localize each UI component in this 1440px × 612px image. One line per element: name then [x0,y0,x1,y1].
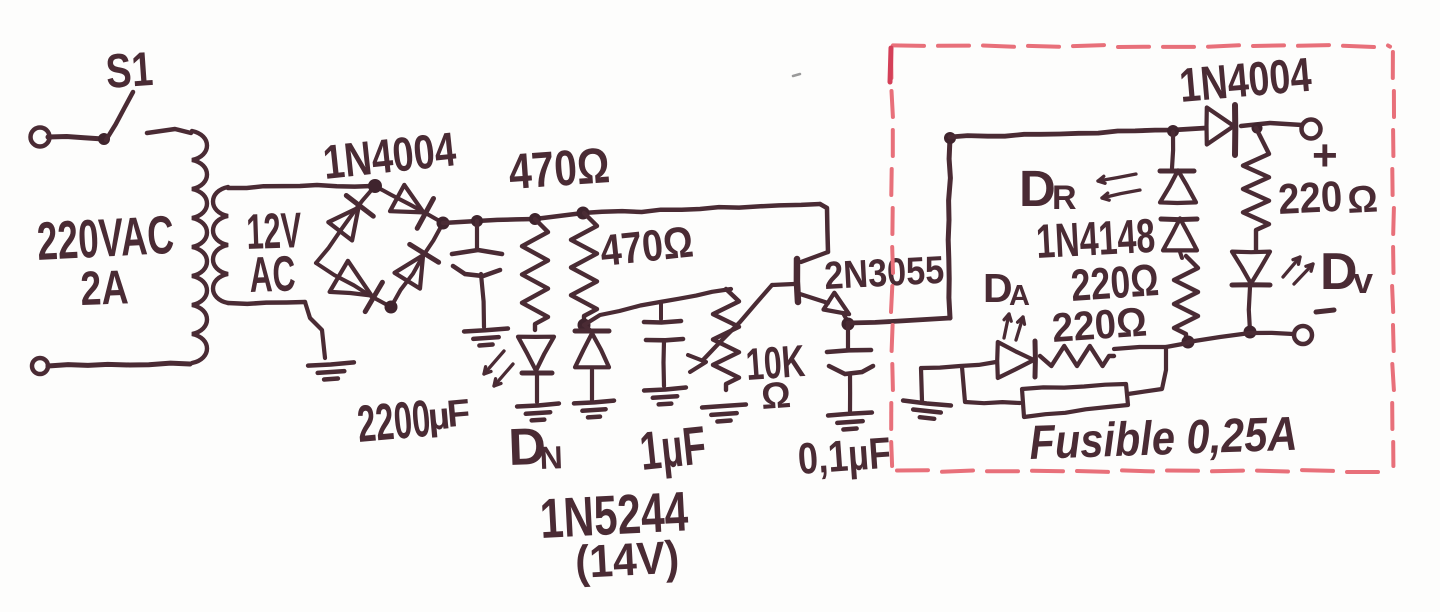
node riser top [944,132,956,144]
ground 10K [702,405,746,408]
wire bridge bottom-right edge [391,223,443,307]
svg-text:1N4004: 1N4004 [1177,49,1313,113]
dashed enclosure bottom [897,468,928,472]
wire DA ground stem [921,368,922,401]
potentiometer P1 10K body [713,289,739,390]
wire bridge bottom-left edge [316,263,391,307]
capacitor C3 plate2 [829,366,873,374]
wire bridge top-left edge [316,186,375,263]
wire J1 left [1114,343,1188,349]
node after diode [1252,123,1263,134]
fuse F1 body [1022,384,1128,417]
diode bridge D4 (bottom-right) [395,255,424,288]
resistor R2 470 (reg branch) [571,213,597,322]
wire J1 to minus node [1188,333,1250,342]
wire DA anode lead [922,362,996,368]
svg-text:1µF: 1µF [637,415,709,482]
capacitor C3 0.1uF top lead [846,326,850,348]
svg-text:470Ω: 470Ω [507,137,612,200]
ground 0.1uF [828,413,872,416]
terminal plus [1302,120,1321,139]
led Dv arrows [1283,257,1300,277]
svg-text:220Ω: 220Ω [1050,298,1148,351]
dashed enclosure top [893,43,924,48]
label minus [1316,310,1334,312]
ground box [903,401,951,406]
wire diode to plus [1241,123,1302,126]
led DA bar [1033,341,1038,377]
svg-text:v: v [1353,260,1373,301]
diode bridge D3 (bottom-left) [330,261,372,296]
led DR top lead [1172,132,1173,168]
wire input top [48,137,103,140]
wire emitter node to box [848,318,950,323]
node rail 470b [577,207,590,220]
svg-text:AC: AC [248,245,296,303]
capacitor C2 plate1 [644,321,681,323]
svg-text:220: 220 [1277,173,1343,224]
svg-text:F: F [445,392,472,436]
node bridge right [437,217,450,230]
diode D5 1N4004 output [1207,108,1234,145]
transistor Q1 base bar [797,259,798,302]
led DA triangle [997,342,1034,378]
zener DN bar [522,371,552,376]
svg-text:A: A [1009,280,1030,312]
zener DN lead [535,374,539,402]
led DR triangle [1160,170,1196,203]
terminal input top [31,128,50,147]
resistor R3 220 output [1243,128,1269,250]
wire secondary bottom [228,302,305,304]
node top rail DR [1167,125,1179,137]
capacitor C2 bottom lead [661,341,666,386]
transistor Q1 collector lead [801,252,828,262]
zener DN triangle [518,337,554,371]
resistor R4 220 chain [1174,256,1198,340]
wire input bottom [48,363,190,366]
transformer secondary coil [213,187,228,303]
wire bridge top-right edge [375,186,443,223]
label pointer arrows 2200uF [484,351,504,374]
wire reg node to pot [584,289,731,325]
led Dv bottom lead [1249,287,1250,331]
ground 1N5244 [574,401,614,404]
led DR bar [1160,169,1194,174]
led Dv triangle [1232,252,1270,284]
pencil speck [793,74,800,76]
potentiometer wiper arrow [688,355,706,372]
svg-text:470Ω: 470Ω [598,217,696,275]
capacitor C2 1uF top lead [659,303,663,319]
node rail DN [529,213,541,225]
diode D7 1N4148 triangle [1163,218,1197,250]
fuse F1 right lead [1128,347,1166,394]
diode to resistor lead [1180,252,1182,258]
wire box riser [948,138,950,318]
svg-text:D: D [1320,243,1358,301]
svg-text:2200: 2200 [355,390,433,454]
svg-text:1N4004: 1N4004 [321,123,459,190]
zener 1N5244 bar [575,329,609,334]
transformer primary coil [192,131,207,363]
svg-text:S1: S1 [104,43,155,99]
capacitor C1 2200uF top lead [475,221,479,249]
node bridge bottom [385,301,398,314]
led DA arrows [1004,314,1009,338]
diode bridge D1 (top-left) [328,208,358,241]
capacitor C3 plate1 [827,350,871,352]
svg-text:2A: 2A [80,261,130,316]
transistor Q1 emitter lead [800,294,828,303]
terminal input bottom [32,358,48,374]
zener 1N5244 triangle [575,333,609,367]
node bridge top [368,179,382,193]
capacitor C1 bottom lead [481,274,484,327]
led DR arrows [1098,174,1136,181]
wire wiper to base [703,285,772,360]
capacitor C1 plate1 [452,250,502,254]
zener 1N5244 lead [584,325,590,330]
resistor R5 220 horizontal [1040,346,1114,366]
wire rail corner to collector [820,204,828,252]
diode bridge D2 (top-right) [390,185,424,213]
wire switch to transformer [147,129,191,133]
wire bridge to ground [305,302,325,358]
wire main rail [443,204,820,223]
wire secondary top [228,185,372,188]
svg-text:2N3055: 2N3055 [823,249,945,298]
svg-text:(14V): (14V) [574,531,681,588]
wire box top rail [950,128,1206,137]
ground 1uF [644,388,686,391]
svg-text:Ω: Ω [1346,178,1379,222]
svg-text:D: D [1019,160,1056,217]
switch S1 [98,133,110,145]
svg-text:Fusible 0,25A: Fusible 0,25A [1029,408,1299,470]
node DA fuse branch [962,367,1020,403]
diode D7 1N4148 bar [1161,217,1197,223]
ground DN [517,404,559,407]
dashed enclosure corner tick [890,48,891,82]
wire emitter to node [843,313,848,322]
led Dv bar [1232,282,1270,287]
wire node to minus terminal [1250,333,1293,334]
capacitor C3 bottom lead [848,374,852,411]
terminal minus [1294,326,1312,344]
svg-text:N: N [539,439,563,476]
svg-text:0,1µF: 0,1µF [796,429,892,484]
node minus [1244,326,1257,339]
dashed enclosure left [889,52,893,78]
node J1 [1182,336,1195,349]
svg-text:Ω: Ω [760,374,792,417]
node rail cap1 [471,215,483,227]
node reg [578,319,591,332]
node emitter [842,318,855,331]
ground bridge [308,362,354,365]
dashed enclosure right [1391,52,1395,78]
transistor Q1 emitter arrow [824,293,850,315]
resistor R1 470 (DN branch) [522,219,548,330]
svg-text:R: R [1052,179,1077,217]
capacitor C1 plate2 [453,266,500,276]
capacitor C2 plate2 [646,339,683,340]
ground 2200uF [464,329,508,332]
transistor Q1 base lead [772,284,794,285]
